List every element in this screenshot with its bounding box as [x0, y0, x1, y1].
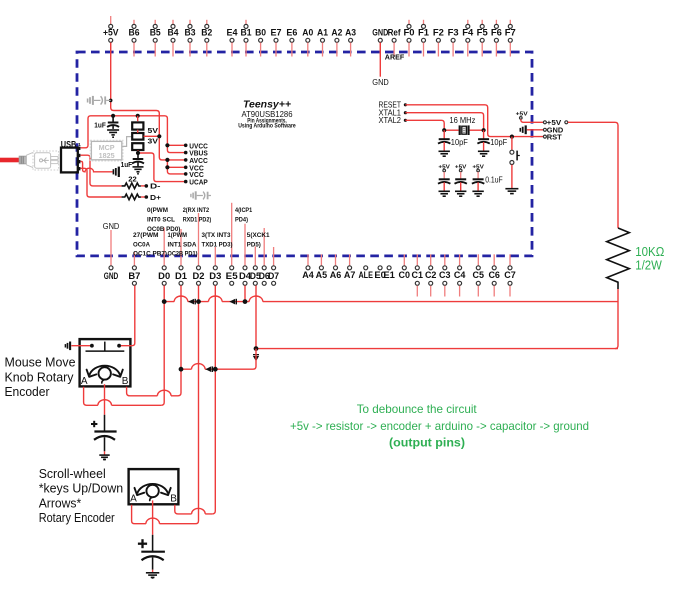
svg-text:E1: E1	[383, 270, 395, 280]
bottom pin C4	[459, 254, 461, 265]
ground (decoupling 1)	[439, 190, 450, 192]
wire D1 vertical	[178, 286, 181, 396]
svg-text:Rotary Encoder: Rotary Encoder	[39, 510, 116, 525]
svg-text:A0: A0	[302, 27, 313, 37]
wire D5 lower segment	[253, 349, 256, 370]
top pin B3	[189, 20, 191, 24]
bottom pin D1	[180, 229, 182, 265]
svg-text:5(XCK1: 5(XCK1	[247, 232, 270, 239]
ground (C4)	[478, 150, 489, 152]
bottom pin GND	[110, 230, 112, 265]
svg-text:5V: 5V	[148, 126, 159, 135]
svg-text:Encoder: Encoder	[5, 384, 51, 399]
wire +5V symbol to pin	[521, 119, 544, 122]
svg-text:PD5): PD5)	[247, 241, 261, 248]
svg-text:F4: F4	[462, 27, 473, 37]
pin RST (right edge)	[543, 135, 546, 138]
ground (C5)	[99, 454, 109, 456]
wire crystal right	[470, 129, 484, 131]
arrow on W2 (down)	[253, 354, 259, 356]
bottom pin D5	[254, 246, 256, 265]
node crystal left	[442, 128, 446, 132]
svg-text:A3: A3	[345, 27, 356, 37]
pin VCC	[184, 166, 188, 170]
bottom pin C7	[509, 254, 511, 265]
wire mouse B to D1	[127, 387, 178, 396]
svg-text:D3: D3	[209, 271, 221, 281]
svg-text:B1: B1	[241, 27, 252, 37]
bottom pin D6	[263, 228, 265, 265]
wire C6 to ground	[152, 570, 154, 574]
resistor R3 22 (D+)	[122, 194, 141, 200]
svg-text:B: B	[170, 494, 177, 505]
wire button to ground	[511, 165, 513, 189]
svg-text:A7: A7	[344, 270, 356, 280]
top pin +5V	[110, 16, 112, 24]
capacitor C6 (electrolytic, scroll)	[152, 535, 154, 551]
chassis stub icon (gray, near UCAP)	[191, 191, 211, 199]
wire UVCC tap	[167, 144, 185, 146]
top pin B6	[133, 20, 135, 24]
bottom pin E5	[231, 203, 233, 266]
node W1-D4	[243, 299, 248, 304]
node UVCC tap	[165, 143, 169, 147]
pin UCAP	[184, 180, 188, 184]
svg-text:B0: B0	[255, 27, 266, 37]
wire rail to 5V box	[137, 116, 139, 121]
svg-text:Scroll-wheel: Scroll-wheel	[39, 466, 106, 481]
node W1-D2	[196, 299, 201, 304]
capacitor C5 (electrolytic, mouse)	[104, 415, 106, 431]
bottom pin D0	[163, 228, 165, 266]
ground (C3)	[439, 150, 450, 152]
svg-text:D+: D+	[150, 193, 162, 202]
svg-text:E7: E7	[271, 27, 282, 37]
bottom pin A6	[335, 254, 337, 265]
resistor R2 22 (D-)	[122, 183, 141, 189]
svg-text:*keys Up/Down: *keys Up/Down	[39, 481, 124, 496]
wire cap to ground #3	[477, 182, 479, 191]
svg-text:Knob Rotary: Knob Rotary	[5, 369, 74, 384]
arrow on W3	[205, 366, 211, 372]
svg-text:1uF: 1uF	[94, 121, 106, 130]
rotary encoder ENC1 body	[80, 339, 131, 386]
svg-text:F3: F3	[448, 27, 459, 37]
svg-text:1825: 1825	[99, 151, 115, 160]
node AVCC junction	[165, 158, 169, 162]
arrow on W1 (left)	[188, 299, 194, 305]
regulator select box mid	[132, 133, 143, 140]
node cap C1 tap	[111, 114, 115, 118]
wire USB shield to ferrite	[81, 161, 113, 171]
top pin F0	[408, 20, 410, 24]
svg-text:F1: F1	[418, 27, 429, 37]
pin UVCC	[184, 144, 188, 148]
wire R2 to D-	[141, 185, 146, 187]
node W3-D3	[213, 367, 218, 372]
USB cable (thick red)	[0, 158, 19, 163]
wire D3 vertical	[212, 286, 215, 514]
node crystal right	[482, 128, 486, 132]
regulator select box 3V	[132, 143, 143, 150]
svg-text:RST: RST	[547, 132, 562, 141]
encoder push-switch contacts	[90, 344, 94, 348]
svg-text:UCAP: UCAP	[189, 179, 208, 187]
svg-text:Arrows*: Arrows*	[39, 495, 81, 510]
wire C2 stub	[137, 153, 139, 158]
svg-text:10pF: 10pF	[490, 138, 507, 147]
top pin F4	[467, 20, 469, 24]
wire C2 to ground	[137, 162, 139, 167]
svg-text:A: A	[81, 376, 88, 387]
svg-text:D0: D0	[158, 271, 170, 281]
ferrite bead (encoder switch)	[65, 342, 70, 351]
bottom pin A7	[349, 254, 351, 265]
svg-text:D2: D2	[193, 271, 205, 281]
wire USB VCC pin to 5V rail	[81, 116, 186, 153]
svg-text:0(PWM: 0(PWM	[147, 207, 168, 214]
bottom pin E0	[378, 266, 382, 270]
capacitor 0.1uF #3	[473, 178, 484, 180]
wire bus W3 (D1-D3-D5)	[181, 368, 253, 370]
node W2-D5	[254, 346, 259, 351]
svg-text:Using Arduino Software: Using Arduino Software	[238, 122, 296, 129]
wire +5V from top pin	[111, 43, 186, 160]
svg-text:ALE: ALE	[358, 270, 373, 280]
svg-text:22: 22	[128, 175, 137, 184]
top pin F1	[423, 20, 425, 24]
wire XTAL1 to crystal	[405, 113, 483, 131]
bottom pin C1	[416, 254, 418, 265]
top pin F7	[509, 20, 511, 24]
pin D-	[145, 184, 149, 188]
wire to C3	[443, 130, 445, 138]
svg-text:Mouse Move: Mouse Move	[5, 355, 76, 370]
svg-text:To debounce the circuit: To debounce the circuit	[357, 402, 478, 416]
rotary symbol (scroll)	[137, 484, 168, 494]
svg-text:A5: A5	[316, 270, 328, 280]
svg-text:A1: A1	[317, 27, 328, 37]
USB connector J1 (black)	[61, 148, 78, 173]
wire R3 to D+	[141, 196, 146, 198]
bottom pin E1	[387, 266, 391, 270]
svg-text:C1: C1	[412, 270, 424, 280]
svg-text:C4: C4	[454, 270, 466, 280]
svg-text:XTAL2: XTAL2	[379, 116, 402, 125]
svg-text:F0: F0	[404, 27, 415, 37]
svg-text:16 MHz: 16 MHz	[449, 116, 475, 125]
wire mouse common to capacitor	[104, 384, 106, 415]
wire to C4	[483, 130, 485, 138]
node reset button tap	[510, 135, 514, 139]
bottom pin A5	[320, 254, 322, 265]
ferrite bead FB1	[113, 167, 118, 177]
svg-text:GND: GND	[372, 77, 389, 87]
top pin B2	[206, 20, 208, 24]
wire C1 stub	[112, 116, 114, 122]
svg-text:F7: F7	[505, 27, 516, 37]
svg-text:D7: D7	[268, 271, 279, 281]
wire XTAL2 to crystal	[405, 120, 444, 130]
svg-text:B6: B6	[129, 27, 140, 37]
wire mouse A to D0	[84, 387, 162, 406]
wire AVCC bus	[167, 160, 185, 174]
svg-text:RXD1 PD2): RXD1 PD2)	[183, 216, 212, 223]
wire C4 to ground	[483, 142, 485, 151]
svg-text:3(TX INT3: 3(TX INT3	[202, 232, 231, 239]
voltage regulator U2 MCP1825	[90, 140, 123, 161]
ground (C1)	[107, 129, 119, 131]
wire scroll common to capacitor	[152, 500, 154, 534]
bottom pin B7	[133, 252, 135, 265]
svg-text:B2: B2	[201, 27, 212, 37]
node W3-D1	[179, 367, 184, 372]
ground (C6)	[146, 572, 159, 574]
wire top GND pin to board GND	[379, 43, 381, 77]
wire cap to ground #2	[460, 182, 462, 191]
capacitor 0.1uF #2	[455, 178, 466, 180]
pin AVCC	[184, 158, 188, 162]
Teensy++ board outline (dashed border)	[77, 52, 532, 256]
top pin B5	[154, 20, 156, 24]
svg-text:INT1 SDA: INT1 SDA	[168, 241, 197, 248]
capacitor 0.1uF #1	[439, 178, 450, 180]
wire crystal left	[444, 129, 458, 131]
svg-text:B: B	[122, 376, 129, 387]
arrow on W1 (right)	[229, 299, 235, 305]
svg-text:Ref: Ref	[388, 27, 402, 37]
ground (decoupling 3)	[472, 190, 483, 192]
svg-text:4(ICP1: 4(ICP1	[235, 207, 252, 214]
svg-text:C0: C0	[399, 270, 411, 280]
node 3V box bottom	[136, 151, 140, 155]
capacitor C1 1uF	[108, 122, 119, 124]
bottom pin D4	[244, 224, 246, 266]
node +5V/gray-icon junction	[109, 99, 113, 103]
bottom pin ALE	[364, 266, 368, 270]
wire MCP1825 to 3V box (gray)	[122, 137, 132, 147]
wire ferrite to switch	[71, 345, 90, 347]
pin GND (right edge)	[543, 128, 546, 131]
bottom pin C5	[477, 254, 479, 265]
USB plug (gray)	[19, 151, 58, 170]
svg-text:GND: GND	[104, 271, 119, 281]
ground (C2)	[133, 166, 144, 168]
capacitor C4 10pF	[478, 138, 489, 140]
svg-text:GND: GND	[103, 221, 120, 231]
bottom pin C3	[444, 254, 446, 265]
pin VCC	[184, 172, 188, 176]
svg-text:0.1uF: 0.1uF	[485, 175, 503, 184]
svg-text:E6: E6	[286, 27, 297, 37]
svg-text:3V: 3V	[148, 137, 159, 146]
svg-text:OC0A: OC0A	[133, 241, 150, 248]
chassis stub icon (gray, top-left)	[88, 96, 111, 105]
svg-text:F6: F6	[491, 27, 502, 37]
wire scroll B to D3	[175, 505, 213, 514]
bottom pin D3	[214, 247, 216, 265]
svg-text:A4: A4	[302, 270, 314, 280]
crystal Y1 16MHz	[459, 125, 461, 135]
wire bus W1 (D0-D2-D4 to resistor)	[164, 301, 618, 303]
wire C1 to ground	[112, 125, 114, 129]
bottom pin D2	[198, 213, 200, 265]
svg-text:D1: D1	[175, 271, 187, 281]
rotary symbol (mouse)	[89, 366, 120, 376]
svg-text:(output pins): (output pins)	[389, 435, 465, 449]
wire ferrite to GND pin	[527, 129, 544, 131]
wire D4 vertical	[244, 286, 246, 302]
wire +5V pin to resistor	[568, 122, 618, 228]
wire mid box to +5V rail	[144, 135, 160, 137]
svg-text:27(PWM: 27(PWM	[133, 232, 159, 239]
svg-text:OC2B PD1): OC2B PD1)	[168, 250, 198, 257]
svg-text:C5: C5	[473, 270, 485, 280]
svg-text:B3: B3	[185, 27, 196, 37]
bottom pin C2	[430, 254, 432, 265]
wire D5 vertical	[255, 286, 257, 349]
svg-text:1/2W: 1/2W	[635, 258, 662, 273]
svg-text:INT0 SCL: INT0 SCL	[147, 216, 175, 223]
bottom pin D7	[273, 247, 275, 265]
svg-text:B7: B7	[128, 271, 140, 281]
pin D+	[145, 195, 149, 199]
node regulator box tap	[136, 114, 140, 118]
wire USB D+ pin down	[81, 168, 122, 197]
wire USB D- pin down	[81, 155, 122, 186]
node mid box / +5V rail	[157, 134, 161, 138]
pin +5V (right edge)	[543, 121, 546, 124]
regulator select box 5V-in	[132, 122, 143, 129]
svg-text:B5: B5	[150, 27, 161, 37]
bottom pin C6	[493, 254, 495, 265]
svg-text:10KΩ: 10KΩ	[635, 244, 664, 259]
svg-text:C6: C6	[488, 270, 500, 280]
svg-text:A2: A2	[331, 27, 342, 37]
svg-text:A6: A6	[330, 270, 342, 280]
svg-text:TXD1 PD3): TXD1 PD3)	[202, 241, 233, 248]
wire VCC tap	[167, 166, 185, 168]
wire resistor to bus	[615, 289, 618, 349]
svg-text:OC1C PB7): OC1C PB7)	[133, 250, 167, 257]
svg-text:AREF: AREF	[385, 53, 405, 62]
wire C3 to ground	[443, 142, 445, 151]
svg-text:F5: F5	[477, 27, 488, 37]
svg-text:C3: C3	[439, 270, 451, 280]
wire switch to B7	[121, 286, 135, 346]
wire bus W2 (D5 to resistor)	[256, 348, 618, 350]
svg-text:1(PWM: 1(PWM	[168, 232, 188, 239]
push button SW1	[510, 150, 514, 154]
resistor R1 10K	[607, 228, 630, 289]
svg-text:C2: C2	[425, 270, 437, 280]
svg-text:PD4): PD4)	[235, 216, 248, 223]
svg-text:E5: E5	[226, 271, 238, 281]
svg-text:C7: C7	[504, 270, 516, 280]
top pin F6	[495, 20, 497, 24]
svg-text:D-: D-	[150, 182, 161, 191]
svg-text:+5V: +5V	[103, 27, 119, 37]
bottom pin C0	[403, 254, 405, 265]
svg-text:B4: B4	[168, 27, 179, 37]
svg-text:A: A	[130, 494, 137, 505]
wire cap to ground #1	[443, 182, 445, 191]
wire D0 vertical	[161, 286, 164, 406]
capacitor C3 10pF	[439, 138, 450, 140]
node VCC tap	[165, 165, 169, 169]
ground (decoupling 2)	[455, 190, 466, 192]
wire 5V box to mid box	[137, 130, 139, 133]
rotary encoder ENC2 body	[129, 469, 179, 504]
capacitor C2 1uF	[133, 158, 144, 160]
svg-text:1uF: 1uF	[121, 160, 133, 169]
svg-text:E4: E4	[227, 27, 238, 37]
top pin B4	[172, 20, 174, 24]
wire scroll A to D2	[132, 505, 196, 524]
svg-text:+5v -> resistor -> encoder + a: +5v -> resistor -> encoder + arduino -> …	[290, 419, 589, 433]
pin VBUS	[184, 151, 188, 155]
ferrite bead (GND pin)	[520, 125, 525, 134]
wire to button	[511, 137, 513, 150]
top pin F5	[481, 20, 483, 24]
top pin B1	[245, 20, 247, 24]
svg-text:10pF: 10pF	[451, 138, 468, 147]
svg-text:2(RX INT2: 2(RX INT2	[183, 207, 210, 214]
node W1-D0	[162, 299, 167, 304]
wire D2 vertical	[196, 286, 199, 524]
svg-text:GND: GND	[372, 27, 388, 37]
wire RESET to RST pin	[405, 105, 543, 137]
wire 3V box down to UCAP node	[138, 150, 186, 181]
ground (button)	[505, 188, 518, 190]
wire C5 to ground	[104, 451, 106, 454]
svg-text:F2: F2	[433, 27, 444, 37]
bottom pin A4	[307, 254, 309, 265]
